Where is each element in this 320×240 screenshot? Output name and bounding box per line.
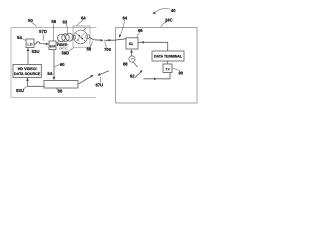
svg-text:63: 63 [62,20,67,25]
svg-text:24C: 24C [165,17,173,22]
svg-text:83U: 83U [16,88,24,93]
svg-text:54: 54 [47,71,52,76]
svg-text:HD VIDEO/: HD VIDEO/ [18,67,37,71]
svg-text:DATA TERMINAL: DATA TERMINAL [154,55,183,59]
svg-text:40: 40 [171,8,176,13]
svg-text:60: 60 [60,62,65,67]
svg-text:64: 64 [81,15,86,20]
svg-text:90: 90 [178,70,183,75]
svg-text:64: 64 [122,15,127,20]
svg-text:61: 61 [129,42,133,46]
svg-text:86: 86 [58,89,63,94]
svg-text:53U: 53U [32,49,40,54]
svg-text:59D: 59D [61,50,69,55]
svg-text:57D: 57D [39,29,47,34]
svg-text:TX: TX [165,68,170,72]
svg-text:92: 92 [130,74,135,79]
svg-text:50: 50 [28,18,33,23]
svg-text:58: 58 [51,19,56,24]
svg-text:LD: LD [27,42,32,47]
svg-text:67U: 67U [95,82,103,87]
svg-text:700: 700 [104,47,112,52]
svg-text:88: 88 [123,62,128,67]
svg-text:68: 68 [86,46,91,51]
svg-text:DATA SOURCE: DATA SOURCE [14,72,41,76]
svg-text:66: 66 [138,28,143,33]
svg-text:54: 54 [17,35,22,40]
svg-text:EM: EM [50,43,57,48]
